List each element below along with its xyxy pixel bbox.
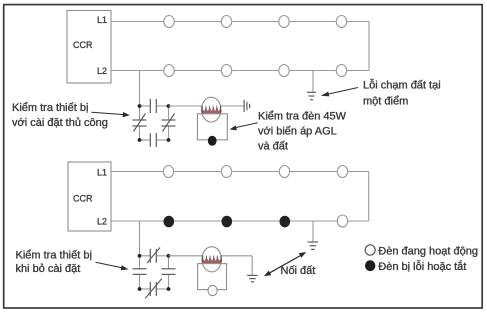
wire down to ground (bottom lamp circuit): [251, 256, 253, 276]
lamp L2-2 (top, on): [221, 65, 231, 77]
ground (lamp circuit, top, sideways): [244, 100, 250, 112]
double arrow linking grounds (Noi dat): [264, 252, 306, 276]
arrow from ground-fault label to ground: [321, 88, 358, 97]
svg-text:Lỗi chạm đất tại: Lỗi chạm đất tại: [363, 79, 441, 92]
arrow from 45W label to fixture box: [230, 123, 258, 131]
wire transformer to ground drop (bottom): [221, 255, 252, 257]
lamp L1-4 (top, on): [336, 16, 346, 28]
lamp L2-2 (bottom, failed): [222, 216, 233, 228]
wire L1 rail (top): [111, 21, 369, 23]
45W lamp fixture box (bottom): [198, 264, 227, 290]
lamp L2-1 (top, on): [164, 65, 174, 77]
lamp (failed, filled) in fixture (top): [208, 136, 217, 146]
wire bridge to transformer (bottom): [169, 255, 203, 257]
node dots of bridge (top): [138, 104, 142, 108]
svg-text:khi bỏ cài đặt: khi bỏ cài đặt: [16, 263, 81, 275]
capacitor C5 with cut slash (top wire, bottom circuit): [147, 248, 160, 264]
svg-text:với cài đặt thủ công: với cài đặt thủ công: [12, 117, 108, 129]
lamp L2-4 (bottom, on): [337, 215, 347, 227]
CCR unit U2 (bottom): [68, 162, 111, 231]
svg-text:Kiểm tra thiết bị: Kiểm tra thiết bị: [12, 102, 88, 114]
capacitor C8 with cut slash (bottom wire, bottom circuit): [145, 279, 162, 299]
lamp L2-3 (top, on): [279, 65, 289, 77]
bridge right branch wire (top): [168, 106, 170, 120]
svg-text:Kiểm tra đèn 45W: Kiểm tra đèn 45W: [258, 111, 347, 123]
capacitor bridge (bottom): top wire: [140, 255, 151, 257]
capacitor C2 with cut slash (left branch, top circuit): [133, 114, 147, 132]
lamp L1-2 (top, on): [221, 16, 231, 28]
transformer T1 winding (red coil): [202, 106, 220, 114]
lamp L2-4 (top, on): [336, 65, 346, 77]
capacitor C6 (left branch, bottom circuit): [133, 269, 147, 275]
ground (lamp circuit, bottom): [247, 275, 257, 281]
ground fault point (top loop): [307, 71, 316, 100]
svg-text:Đèn bị lỗi hoặc tắt: Đèn bị lỗi hoặc tắt: [378, 260, 466, 273]
arrow from manual-test label to bridge: [92, 112, 130, 117]
wire L2 rail (top): [111, 70, 369, 72]
capacitor bridge (top): bottom wire: [140, 139, 151, 141]
svg-text:một điểm: một điểm: [363, 96, 408, 108]
svg-text:L1: L1: [97, 15, 107, 25]
lamp L1-1 (bottom, on): [163, 166, 173, 178]
svg-text:L2: L2: [97, 217, 107, 227]
svg-text:L1: L1: [97, 168, 107, 178]
wire transformer to ground (top): [220, 105, 244, 107]
isolating transformer T1 body (top): [201, 97, 221, 122]
capacitor C7 (right branch, bottom circuit): [162, 269, 176, 275]
CCR unit U1 (top): [67, 11, 111, 84]
svg-text:L2: L2: [97, 66, 107, 76]
capacitor C1 (top wire of bridge, top circuit): [150, 99, 156, 113]
wire L2 rail (bottom): [111, 220, 369, 222]
legend lamp on symbol: [365, 245, 375, 255]
wire L1 rail (bottom): [111, 171, 369, 173]
lamp L2-1 (bottom, failed): [164, 216, 175, 228]
bridge left branch wire (bottom): [139, 256, 141, 269]
ground (bottom loop): [308, 221, 319, 249]
svg-text:Kiểm tra thiết bị: Kiểm tra thiết bị: [16, 250, 92, 262]
wire bridge to transformer (top): [169, 105, 203, 107]
capacitor C4 (bottom wire of bridge, top circuit): [150, 133, 156, 147]
wire drop from L2 to test set (top): [139, 71, 141, 107]
svg-text:và đất: và đất: [258, 141, 288, 153]
svg-text:với biến áp AGL: với biến áp AGL: [258, 126, 337, 138]
capacitor C3 with cut slash (right branch, top circuit): [162, 114, 176, 132]
svg-text:CCR: CCR: [73, 194, 93, 204]
legend lamp failed symbol: [365, 260, 375, 271]
wire right-end connector (bottom): [368, 172, 370, 222]
lamp L1-3 (bottom, on): [279, 166, 289, 178]
lamp (working, open) in fixture (bottom): [208, 285, 217, 295]
capacitor bridge (top): top wire: [140, 105, 151, 107]
lamp L1-1 (top, on): [164, 16, 174, 28]
wire drop from L2 to test set (bottom): [139, 221, 141, 256]
lamp L1-3 (top, on): [279, 16, 289, 28]
svg-text:CCR: CCR: [73, 40, 93, 50]
node dots of bridge (bottom): [138, 254, 142, 258]
bridge right branch wire (bottom): [168, 256, 170, 269]
lamp L1-2 (bottom, on): [221, 166, 231, 178]
lamp L1-4 (bottom, on): [337, 166, 347, 178]
bridge left branch wire (top): [139, 106, 141, 120]
lamp L2-3 (bottom, failed): [280, 216, 291, 228]
svg-text:Nối đất: Nối đất: [281, 265, 316, 277]
arrow from removal-test label to bridge: [96, 262, 129, 270]
capacitor bridge (bottom): bottom wire: [140, 288, 151, 290]
wire right-end connector (top): [368, 22, 370, 71]
transformer T2 winding (red coil): [203, 256, 221, 264]
svg-text:Đèn đang hoạt động: Đèn đang hoạt động: [378, 246, 478, 258]
45W lamp fixture box (top): [197, 114, 227, 140]
isolating transformer T2 body (bottom): [202, 247, 222, 272]
